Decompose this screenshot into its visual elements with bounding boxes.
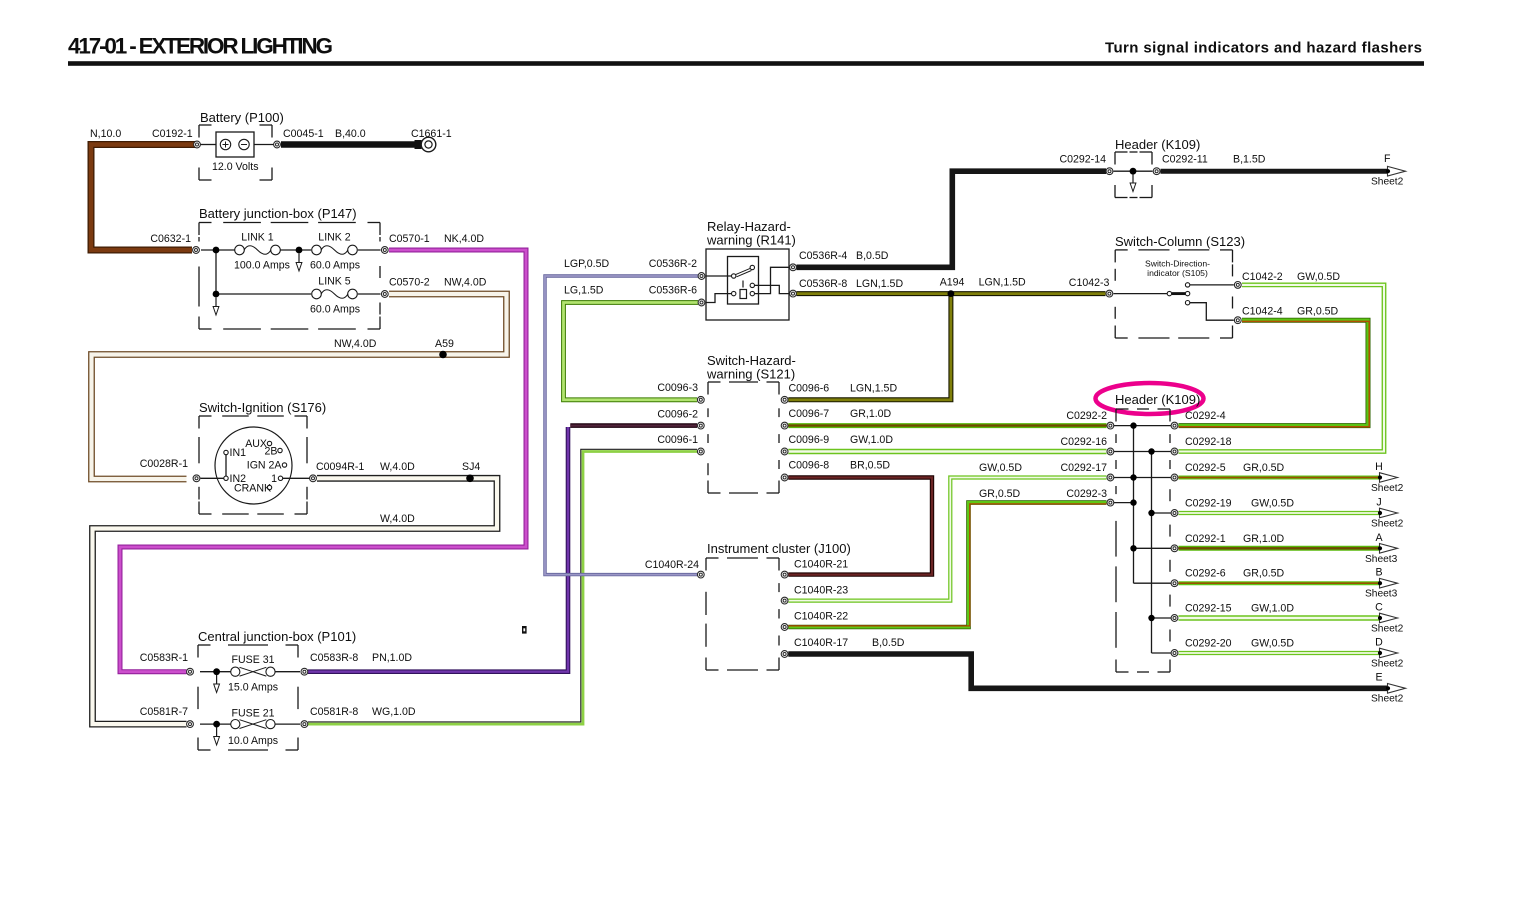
connector C0292-19 xyxy=(1171,510,1178,517)
ignition contacts xyxy=(224,441,287,489)
connector C0292-2 xyxy=(1107,422,1114,429)
node P147 input xyxy=(213,247,220,254)
svg-text:Sheet3: Sheet3 xyxy=(1365,589,1398,600)
svg-text:N,10.0: N,10.0 xyxy=(90,128,121,140)
svg-text:warning (S121): warning (S121) xyxy=(706,367,795,382)
svg-text:60.0 Amps: 60.0 Amps xyxy=(310,304,360,316)
relay switch lever xyxy=(732,265,755,278)
svg-text:FUSE 21: FUSE 21 xyxy=(232,708,275,720)
node bus1 C0292-3 xyxy=(1130,499,1136,505)
wire GW,1.0D header to sheet2 C xyxy=(1179,615,1381,620)
arrow other circuits fuse21 xyxy=(214,728,220,746)
wire fuse31 out xyxy=(275,671,300,673)
connector C0096-3 xyxy=(697,396,704,403)
svg-text:C1040R-22: C1040R-22 xyxy=(794,611,848,623)
node bus2 C0292-15 xyxy=(1148,615,1154,621)
svg-text:GR,0.5D: GR,0.5D xyxy=(1243,462,1285,474)
svg-text:Switch-Direction-: Switch-Direction- xyxy=(1145,259,1210,269)
svg-text:C: C xyxy=(1375,602,1383,614)
svg-text:GR,1.0D: GR,1.0D xyxy=(850,408,892,420)
connector C0583R-8 xyxy=(301,668,308,675)
svg-text:C0632-1: C0632-1 xyxy=(150,233,191,245)
ground ring terminal C1661-1 xyxy=(415,137,436,152)
connector C1040R-22 xyxy=(781,624,788,631)
connector C0096-9 xyxy=(781,448,788,455)
node SJ4 xyxy=(466,475,474,483)
fuse FUSE 31 xyxy=(231,667,275,676)
wire bus vertical P147 xyxy=(215,250,217,294)
connector C0292-5 xyxy=(1171,474,1178,481)
arrow other circuits fuse31 xyxy=(214,675,220,693)
wire GW,0.5D header to sheet2 D xyxy=(1179,651,1381,655)
svg-text:LINK 1: LINK 1 xyxy=(241,232,273,244)
svg-text:C0094R-1: C0094R-1 xyxy=(316,461,364,473)
connector C0292-14 xyxy=(1106,168,1113,175)
connector C0292-11 xyxy=(1153,168,1160,175)
pin line contact to LGN xyxy=(755,285,789,293)
svg-text:C1042-3: C1042-3 xyxy=(1069,277,1110,289)
svg-text:GR,0.5D: GR,0.5D xyxy=(1243,568,1285,580)
svg-text:Sheet2: Sheet2 xyxy=(1371,519,1404,530)
arrow other circuits link5 xyxy=(213,298,219,316)
highlight ellipse xyxy=(1096,383,1204,414)
svg-text:C0096-8: C0096-8 xyxy=(789,460,830,472)
svg-text:C0292-14: C0292-14 xyxy=(1059,154,1106,166)
bracket S176 xyxy=(199,416,307,514)
node bus1 C0292-5 xyxy=(1130,474,1136,480)
svg-text:C0292-17: C0292-17 xyxy=(1060,462,1107,474)
connector C0292-17 xyxy=(1107,474,1114,481)
direction switch lever xyxy=(1167,283,1190,305)
pin line ignition left xyxy=(201,477,224,479)
svg-text:LINK 2: LINK 2 xyxy=(318,232,350,244)
bracket K109 bottom xyxy=(1116,409,1170,672)
svg-text:GW,1.0D: GW,1.0D xyxy=(1251,603,1294,615)
wire LG,1.5D relay to hazard switch xyxy=(564,303,699,400)
connector C0536R-2 xyxy=(698,273,705,280)
header rule xyxy=(68,61,1424,66)
node header top splice xyxy=(1130,168,1137,175)
wire GR,0.5D header to sheet2 H xyxy=(1179,476,1381,480)
offsheet arrow J xyxy=(1378,508,1398,518)
bracket battery P100 xyxy=(199,125,272,180)
svg-text:GR,1.0D: GR,1.0D xyxy=(1243,533,1285,545)
svg-text:Instrument cluster (J100): Instrument cluster (J100) xyxy=(707,541,851,556)
connector C0096-2 xyxy=(697,422,704,429)
connector C0192-1 xyxy=(194,141,201,148)
svg-text:C1042-2: C1042-2 xyxy=(1242,271,1283,283)
connector C0096-6 xyxy=(781,396,788,403)
svg-text:warning (R141): warning (R141) xyxy=(706,233,796,248)
connector C0536R-4 xyxy=(790,264,797,271)
wire N,10.0 battery feed xyxy=(91,145,197,251)
svg-text:B: B xyxy=(1375,567,1382,579)
svg-text:15.0 Amps: 15.0 Amps xyxy=(228,682,278,694)
svg-text:Sheet2: Sheet2 xyxy=(1371,483,1404,494)
svg-text:C0292-16: C0292-16 xyxy=(1060,436,1107,448)
svg-text:C0292-3: C0292-3 xyxy=(1066,488,1107,500)
relay actuator link xyxy=(742,281,744,288)
bracket J100 xyxy=(706,558,779,670)
connector C1040R-21 xyxy=(781,571,788,578)
connector C1040R-23 xyxy=(781,597,788,604)
wire LGN,1.5D branch to hazard switch xyxy=(788,294,951,400)
svg-text:Battery junction-box (P147): Battery junction-box (P147) xyxy=(199,206,357,221)
pin line LGP into relay xyxy=(706,275,732,277)
svg-text:C1040R-23: C1040R-23 xyxy=(794,585,848,597)
svg-text:Sheet3: Sheet3 xyxy=(1365,554,1398,565)
node link2 feed xyxy=(296,247,303,254)
svg-text:IGN 2A: IGN 2A xyxy=(247,460,283,472)
node fuse31 feed xyxy=(213,668,220,675)
svg-text:SJ4: SJ4 xyxy=(462,461,480,473)
wire PN,1.0D into C0096-2 xyxy=(570,423,697,428)
offsheet arrow A xyxy=(1378,544,1398,554)
svg-text:C0583R-1: C0583R-1 xyxy=(140,652,188,664)
svg-text:B,0.5D: B,0.5D xyxy=(856,250,889,262)
wire link1 row xyxy=(201,249,235,251)
svg-text:Header (K109): Header (K109) xyxy=(1115,137,1200,152)
wire header row C0292-19 xyxy=(1152,512,1172,514)
svg-text:C0096-3: C0096-3 xyxy=(657,382,698,394)
svg-text:C0096-7: C0096-7 xyxy=(789,408,830,420)
pin line contact down to C1042-4 xyxy=(1190,303,1234,321)
connector C0292-16 xyxy=(1107,448,1114,455)
wire link2 out xyxy=(358,249,381,251)
connector C0570-2 xyxy=(381,291,388,298)
connector C0632-1 xyxy=(193,247,200,254)
connector C0536R-8 xyxy=(790,290,797,297)
pin line C1042-3 xyxy=(1114,293,1168,295)
svg-text:CRANK: CRANK xyxy=(234,483,271,495)
wire header row C0292-1 xyxy=(1134,547,1172,549)
svg-text:H: H xyxy=(1375,461,1383,473)
wire header top internal xyxy=(1114,170,1153,172)
svg-text:GW,0.5D: GW,0.5D xyxy=(1251,638,1294,650)
svg-text:C0292-4: C0292-4 xyxy=(1185,410,1226,422)
svg-text:C0292-1: C0292-1 xyxy=(1185,533,1226,545)
wire header row C0292-3 xyxy=(1114,502,1134,504)
svg-text:10.0 Amps: 10.0 Amps xyxy=(228,735,278,747)
svg-text:100.0 Amps: 100.0 Amps xyxy=(234,260,290,272)
svg-text:C0292-15: C0292-15 xyxy=(1185,603,1232,615)
pin line contact up to C1042-2 xyxy=(1190,284,1234,286)
svg-text:W,4.0D: W,4.0D xyxy=(380,513,415,525)
wire GW,0.5D switch-column to header C0292-18 xyxy=(1179,285,1385,452)
connector C0292-1 xyxy=(1171,545,1178,552)
offsheet arrow F xyxy=(1386,166,1406,176)
wire GR,0.5D switch-column to header C0292-4 xyxy=(1179,320,1370,427)
wire fuse21 in xyxy=(200,723,231,725)
svg-text:C0096-1: C0096-1 xyxy=(657,434,698,446)
wire GW,0.5D cluster to header C0292-17 xyxy=(788,478,1106,601)
svg-text:C0292-18: C0292-18 xyxy=(1185,436,1232,448)
connector C0570-1 xyxy=(381,247,388,254)
svg-text:LINK 5: LINK 5 xyxy=(318,276,350,288)
svg-text:C0096-2: C0096-2 xyxy=(657,409,698,421)
offsheet arrow E xyxy=(1386,684,1406,694)
svg-text:C1040R-24: C1040R-24 xyxy=(645,559,699,571)
wire NK,4.0D link2 to fuse31 xyxy=(120,250,526,672)
pin line battery left xyxy=(201,144,217,146)
svg-text:B,0.5D: B,0.5D xyxy=(872,637,905,649)
svg-text:F: F xyxy=(1384,153,1391,165)
svg-text:C0536R-2: C0536R-2 xyxy=(649,258,697,270)
svg-text:C0096-9: C0096-9 xyxy=(789,434,830,446)
svg-text:417-01 - EXTERIOR LIGHTING: 417-01 - EXTERIOR LIGHTING xyxy=(68,34,333,59)
svg-text:C0292-2: C0292-2 xyxy=(1066,410,1107,422)
svg-text:C0292-11: C0292-11 xyxy=(1162,154,1208,166)
pin line ignition right xyxy=(283,477,310,479)
svg-text:C1042-4: C1042-4 xyxy=(1242,306,1283,318)
svg-text:D: D xyxy=(1375,637,1383,649)
svg-text:C1040R-17: C1040R-17 xyxy=(794,637,848,649)
svg-text:BR,0.5D: BR,0.5D xyxy=(850,460,890,472)
svg-text:1: 1 xyxy=(271,473,277,485)
svg-text:Sheet2: Sheet2 xyxy=(1371,694,1404,705)
pin line coil to B xyxy=(755,267,789,293)
svg-text:C0536R-4: C0536R-4 xyxy=(799,250,847,262)
arrow other circuits link2 xyxy=(296,254,302,272)
connector C1042-2 xyxy=(1234,282,1241,289)
connector C0581R-8 xyxy=(301,721,308,728)
node link5 feed xyxy=(213,291,220,298)
relay R141 body xyxy=(706,249,789,320)
svg-text:NW,4.0D: NW,4.0D xyxy=(444,277,487,289)
bracket K109 top xyxy=(1115,152,1152,198)
svg-text:FUSE 31: FUSE 31 xyxy=(232,654,275,666)
connector C0583R-1 xyxy=(187,668,194,675)
svg-text:GW,1.0D: GW,1.0D xyxy=(850,434,893,446)
svg-text:C0192-1: C0192-1 xyxy=(152,128,193,140)
connector C0536R-6 xyxy=(698,299,705,306)
connector C0292-6 xyxy=(1171,580,1178,587)
node A59 xyxy=(439,351,447,359)
svg-text:C0292-20: C0292-20 xyxy=(1185,638,1232,650)
wire PN,1.0D fuse31 to hazard switch xyxy=(308,427,568,672)
svg-text:60.0 Amps: 60.0 Amps xyxy=(310,260,360,272)
svg-text:GW,0.5D: GW,0.5D xyxy=(1297,271,1340,283)
wire LGN,1.5D relay to switch-column xyxy=(797,291,1106,296)
connector C0292-15 xyxy=(1171,615,1178,622)
svg-text:C0536R-6: C0536R-6 xyxy=(649,285,697,297)
connector C1042-4 xyxy=(1234,317,1241,324)
connector C0096-1 xyxy=(697,448,704,455)
bracket S121 xyxy=(708,382,779,493)
node bus2 C0292-19 xyxy=(1148,510,1154,516)
wire header row C0292-2/4 xyxy=(1114,425,1171,427)
connector C0045-1 xyxy=(274,141,281,148)
svg-text:GR,0.5D: GR,0.5D xyxy=(1297,306,1339,318)
svg-text:Battery (P100): Battery (P100) xyxy=(200,110,284,125)
connector C0028R-1 xyxy=(193,475,200,482)
connector C0096-7 xyxy=(781,422,788,429)
connector C0292-3 xyxy=(1107,499,1114,506)
wire GR,1.0D hazard switch to header xyxy=(788,423,1106,428)
svg-text:GW,0.5D: GW,0.5D xyxy=(1251,498,1294,510)
svg-text:NW,4.0D: NW,4.0D xyxy=(334,338,377,350)
connector C0292-20 xyxy=(1171,650,1178,657)
svg-text:C0292-5: C0292-5 xyxy=(1185,462,1226,474)
svg-text:12.0 Volts: 12.0 Volts xyxy=(212,161,259,173)
svg-text:Switch-Ignition (S176): Switch-Ignition (S176) xyxy=(199,400,326,415)
svg-text:LG,1.5D: LG,1.5D xyxy=(564,285,604,297)
connector C0292-18 xyxy=(1171,448,1178,455)
svg-text:Sheet2: Sheet2 xyxy=(1371,177,1404,188)
bracket P147 xyxy=(199,223,380,330)
svg-text:B,1.5D: B,1.5D xyxy=(1233,154,1266,166)
wire GW,1.0D hazard switch to header xyxy=(788,449,1106,454)
wire B,0.5D cluster to sheet2 E xyxy=(788,654,1388,688)
svg-text:C0045-1: C0045-1 xyxy=(283,128,324,140)
svg-text:2B: 2B xyxy=(265,446,278,458)
stray glyph xyxy=(522,626,527,634)
wire header row C0292-15 xyxy=(1152,617,1172,619)
wire LGP,0.5D relay to instrument cluster xyxy=(545,276,698,575)
wire fuse21 out xyxy=(275,723,300,725)
connector C0096-8 xyxy=(781,474,788,481)
svg-text:C0096-6: C0096-6 xyxy=(789,383,830,395)
wire GW,0.5D header to sheet2 J xyxy=(1179,511,1381,515)
svg-text:C0581R-7: C0581R-7 xyxy=(140,706,188,718)
wire header row C0292-6 xyxy=(1134,582,1172,584)
wire link1-link2 row xyxy=(281,249,312,251)
wire header row C0292-17/5 xyxy=(1114,477,1171,479)
relay R141 inner box xyxy=(728,257,759,305)
svg-text:IN1: IN1 xyxy=(230,447,247,459)
svg-text:C1040R-21: C1040R-21 xyxy=(794,559,848,571)
battery B+ B- symbol xyxy=(216,132,254,157)
svg-text:C0583R-8: C0583R-8 xyxy=(310,652,358,664)
svg-text:W,4.0D: W,4.0D xyxy=(380,461,415,473)
svg-text:A194: A194 xyxy=(940,277,965,289)
connector C1040R-24 xyxy=(697,571,704,578)
connector C1040R-17 xyxy=(781,651,788,658)
connector C0581R-7 xyxy=(187,721,194,728)
svg-text:GW,0.5D: GW,0.5D xyxy=(979,462,1022,474)
svg-text:C0570-1: C0570-1 xyxy=(389,233,430,245)
pin line LG to coil xyxy=(706,294,731,303)
bracket P101 xyxy=(198,645,298,750)
svg-text:Turn signal indicators and haz: Turn signal indicators and hazard flashe… xyxy=(1105,40,1422,57)
svg-text:C0292-19: C0292-19 xyxy=(1185,498,1232,510)
svg-text:C0536R-8: C0536R-8 xyxy=(799,278,847,290)
svg-text:A59: A59 xyxy=(435,338,454,350)
svg-text:GR,0.5D: GR,0.5D xyxy=(979,488,1021,500)
wire WG,1.0D fuse21 to hazard switch xyxy=(308,449,697,724)
svg-text:NK,4.0D: NK,4.0D xyxy=(444,233,484,245)
node bus1 C0292-2 xyxy=(1130,422,1136,428)
ignition switch rotary body xyxy=(215,427,292,504)
svg-text:PN,1.0D: PN,1.0D xyxy=(372,652,412,664)
wire W,4.0D ignition to fuse21 xyxy=(93,478,498,724)
node A194 xyxy=(948,290,955,297)
svg-text:C0570-2: C0570-2 xyxy=(389,277,430,289)
wire B,1.5D header to sheet2 F xyxy=(1161,169,1389,174)
node fuse21 feed xyxy=(213,721,220,728)
svg-text:Header (K109): Header (K109) xyxy=(1115,392,1200,407)
offsheet arrow D xyxy=(1378,648,1398,658)
wire header bus2 xyxy=(1151,452,1153,654)
fusible LINK 2 xyxy=(312,245,358,255)
svg-text:LGN,1.5D: LGN,1.5D xyxy=(979,277,1026,289)
connector C1042-3 xyxy=(1106,290,1113,297)
wire link5 out xyxy=(358,293,381,295)
svg-text:A: A xyxy=(1375,532,1383,544)
svg-text:Switch-Column (S123): Switch-Column (S123) xyxy=(1115,234,1245,249)
wire IN1-IN2 xyxy=(225,455,227,476)
svg-text:Central junction-box (P101): Central junction-box (P101) xyxy=(198,629,356,644)
wire header row C0292-20 xyxy=(1152,652,1172,654)
svg-text:C0581R-8: C0581R-8 xyxy=(310,706,358,718)
wire GR,1.0D header to sheet3 A xyxy=(1179,546,1381,551)
svg-text:LGP,0.5D: LGP,0.5D xyxy=(564,258,610,270)
offsheet arrow C xyxy=(1378,613,1398,623)
wire link5 row xyxy=(216,293,311,295)
svg-text:LGN,1.5D: LGN,1.5D xyxy=(856,278,903,290)
svg-text:J: J xyxy=(1376,497,1381,509)
svg-text:C0028R-1: C0028R-1 xyxy=(140,458,188,470)
connector C0292-4 xyxy=(1171,422,1178,429)
svg-text:indicator (S105): indicator (S105) xyxy=(1147,268,1208,278)
wire GR,0.5D cluster to header C0292-3 xyxy=(788,503,1106,627)
wire header row C0292-16/18 xyxy=(1114,451,1171,453)
fusible LINK 5 xyxy=(312,289,358,299)
svg-text:LGN,1.5D: LGN,1.5D xyxy=(850,383,897,395)
wire header bus1 xyxy=(1133,426,1135,584)
svg-text:C0292-6: C0292-6 xyxy=(1185,568,1226,580)
svg-text:Sheet2: Sheet2 xyxy=(1371,659,1404,670)
offsheet arrow B xyxy=(1378,578,1398,588)
arrow header top branch xyxy=(1130,174,1136,192)
pin line battery right xyxy=(254,144,274,146)
wire NW,4.0D link5 to ignition switch xyxy=(92,294,507,479)
node bus1 C0292-1 xyxy=(1130,545,1136,551)
wire B,40.0 battery to ground terminal xyxy=(281,141,416,148)
svg-text:E: E xyxy=(1375,672,1382,684)
wire B,0.5D relay to header xyxy=(797,171,1107,267)
wire GR,0.5D header to sheet3 B xyxy=(1179,581,1381,585)
svg-text:Sheet2: Sheet2 xyxy=(1371,624,1404,635)
svg-text:WG,1.0D: WG,1.0D xyxy=(372,706,416,718)
relay coil xyxy=(732,283,755,298)
fuse FUSE 21 xyxy=(231,720,275,729)
wire fuse31 in xyxy=(200,671,231,673)
node bus2 C0292-18 xyxy=(1148,448,1154,454)
bracket S123 xyxy=(1115,250,1232,338)
connector C0094R-1 xyxy=(310,475,317,482)
offsheet arrow H xyxy=(1378,473,1398,483)
svg-text:B,40.0: B,40.0 xyxy=(335,128,366,140)
fusible LINK 1 xyxy=(235,245,281,255)
wire BR,0.5D hazard switch to cluster xyxy=(788,478,932,575)
